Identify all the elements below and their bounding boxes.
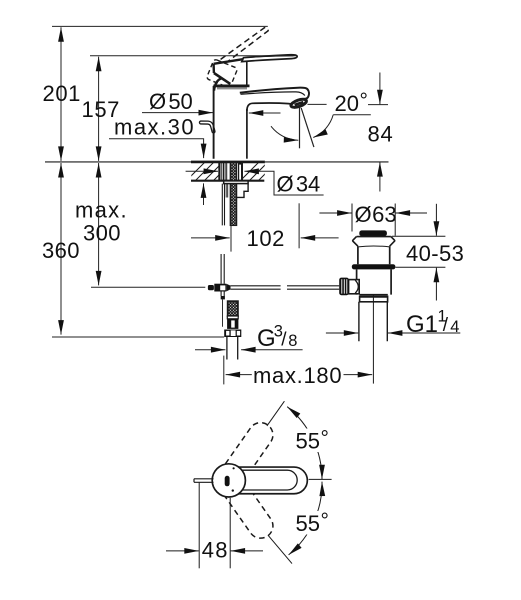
- svg-text:max.: max.: [75, 198, 128, 223]
- lever handle ghost (raised, dashed outline of handle body): [206, 59, 237, 88]
- waste lower body walls: [357, 269, 392, 294]
- label 55 lower halo: [294, 511, 335, 535]
- pull rod vertical (at cross): [221, 254, 224, 296]
- handle skirt arc: [214, 78, 221, 90]
- handle body right edge: [246, 59, 248, 86]
- 20 deg slanted ray: [301, 108, 314, 147]
- countertop hatching left: [186, 161, 233, 181]
- dim line 201 top reference: [52, 25, 268, 27]
- svg-text:/: /: [281, 330, 287, 351]
- waste flange top line: [357, 236, 391, 238]
- waste O-ring: [352, 264, 396, 269]
- svg-text:max.180: max.180: [253, 363, 342, 388]
- label 55 upper halo: [294, 429, 335, 453]
- dim 84 lower arrow: [379, 162, 381, 191]
- 20 deg arc right: [313, 115, 333, 138]
- waste collar: [360, 296, 388, 302]
- lever knurled knob: [339, 278, 349, 296]
- svg-text:300: 300: [83, 221, 121, 246]
- Ø63 right arrow: [396, 212, 427, 214]
- lever housing ball curve: [355, 280, 358, 293]
- tailpipe walls: [359, 302, 387, 342]
- lever handle ghost arm (raised position, dashed): [221, 27, 269, 61]
- horizontal linkage rod left segment: [230, 286, 280, 289]
- lever housing: [349, 280, 360, 294]
- handle body chin diagonal: [214, 73, 230, 84]
- G3/8 left arrow: [195, 349, 225, 351]
- lever blade inner line: [245, 56, 294, 58]
- svg-text:8: 8: [288, 332, 297, 350]
- svg-text:48: 48: [202, 537, 229, 562]
- dim line 157 top reference: [90, 55, 296, 57]
- max.180 extension line: [223, 356, 225, 385]
- waste body bottom edge: [359, 294, 388, 296]
- dim 40-53 lower arrow: [435, 268, 437, 301]
- max.180 left arrow: [226, 374, 252, 376]
- plan dot lower: [232, 489, 234, 491]
- 20 deg label underline: [333, 114, 371, 116]
- handle body left edge: [212, 64, 215, 73]
- 48 right extension line: [229, 498, 231, 569]
- rod coupling block: [214, 284, 226, 292]
- waste flange right side: [390, 237, 395, 247]
- shank stub stripes below nut: [226, 184, 228, 198]
- svg-text:201: 201: [43, 81, 82, 106]
- handle base shoulder shadow: [217, 87, 247, 89]
- max.180 right arrow: [344, 374, 373, 376]
- svg-text:20°: 20°: [335, 90, 368, 117]
- svg-text:/: /: [443, 315, 449, 336]
- dim 360 vertical: [60, 163, 62, 335]
- svg-text:360: 360: [42, 238, 80, 263]
- pull-rod hook knob: [201, 123, 214, 132]
- countertop surface line (thin extension part left): [45, 161, 191, 163]
- shank right wall: [241, 162, 243, 181]
- solid lever blade: [242, 55, 297, 62]
- 84 outlet extension line: [368, 104, 388, 106]
- svg-text:40-53: 40-53: [406, 241, 464, 266]
- spout inner top line: [241, 92, 305, 96]
- G1 1/4 left arrow: [326, 332, 358, 334]
- supply hose lower (cross-hatched): [228, 301, 238, 316]
- plan solid lever outer: [230, 467, 307, 494]
- dim 40-53 upper arrow: [435, 204, 437, 236]
- G3/8 right arrow with underline: [241, 349, 303, 351]
- hose fitting slot: [231, 320, 235, 327]
- svg-text:55°: 55°: [296, 510, 329, 537]
- waste plug cap: [359, 230, 387, 236]
- handle body top edge: [214, 59, 247, 64]
- spout top edge and tip: [240, 88, 309, 99]
- pull rod ghost line: [222, 300, 224, 327]
- dim 84 upper arrow: [379, 73, 381, 105]
- dim 48 right arrow: [231, 550, 263, 552]
- threaded shank left wall: [218, 162, 220, 181]
- handle base shoulder: [213, 85, 249, 88]
- 40-53 upper extension line: [392, 235, 446, 237]
- body column right edge: [246, 109, 248, 159]
- 55 deg upper arc: [287, 407, 322, 480]
- shank top-right dot: [239, 162, 241, 164]
- mounting nut step: [237, 184, 248, 198]
- connection nut: [224, 330, 241, 338]
- Ø63 right extension line: [394, 204, 396, 236]
- aerator inner slot: [295, 102, 304, 105]
- waste flange left side: [353, 237, 358, 247]
- spout underside: [247, 103, 294, 111]
- plan cartridge notch bar: [225, 476, 230, 487]
- svg-text:102: 102: [247, 226, 286, 251]
- Ø50 leader with arrow: [142, 112, 213, 114]
- countertop surface line (thin extension part right): [265, 161, 389, 163]
- dim 48 left arrow: [166, 550, 199, 552]
- plan solid lever inner line: [240, 470, 298, 490]
- 20 deg vertical ray: [299, 107, 301, 148]
- mounting nut bar: [224, 181, 248, 184]
- 102 left extension line: [230, 226, 232, 252]
- 55 deg upper radial line: [267, 401, 285, 426]
- connection nut facets: [226, 331, 229, 336]
- svg-text:max.30: max.30: [114, 115, 195, 140]
- max.300 bottom reference line: [91, 286, 205, 288]
- dim max.300 vertical: [98, 163, 100, 285]
- countertop hatching right: [240, 161, 287, 181]
- svg-text:4: 4: [450, 318, 459, 336]
- dim 157 vertical: [98, 57, 100, 161]
- rod coupling hole: [220, 285, 225, 290]
- dim 201 vertical: [60, 27, 62, 161]
- pull rod below nut: [222, 184, 224, 226]
- waste collar top thick edge: [360, 295, 388, 297]
- svg-text:G1: G1: [406, 311, 438, 338]
- hose fitting dark block: [227, 319, 238, 329]
- waste flange inner line: [358, 245, 389, 248]
- svg-text:55°: 55°: [296, 427, 329, 454]
- countertop bottom line: [191, 180, 264, 182]
- svg-text:Ø34: Ø34: [277, 172, 321, 197]
- horizontal radial line: [309, 478, 332, 480]
- Ø63 left extension line: [351, 204, 353, 232]
- svg-text:Ø63: Ø63: [355, 202, 397, 227]
- rod coupling left piece: [208, 285, 214, 290]
- 360 bottom reference line: [52, 336, 224, 338]
- Ø63 left arrow: [319, 212, 351, 214]
- svg-text:Ø50: Ø50: [149, 89, 193, 114]
- Ø34 right arrow and leader box: [244, 171, 323, 195]
- pull rod end cap: [221, 296, 225, 299]
- 40-53 lower extension line: [396, 266, 446, 268]
- 55 deg lower radial line: [268, 535, 292, 563]
- max.30 leader: [109, 139, 204, 158]
- G1 1/4 right arrow with underline: [388, 332, 460, 334]
- plan lever ghost upper (55 deg, dashed): [220, 418, 278, 486]
- horizontal linkage rod right segment: [287, 286, 339, 289]
- 20 deg arc left: [271, 126, 298, 140]
- body column left edge: [213, 86, 215, 159]
- dim 102 left arrow: [191, 237, 230, 239]
- shank thread stripes: [222, 162, 227, 180]
- plan body circle: [212, 464, 245, 497]
- max.30 lower arrow: [203, 183, 205, 205]
- hose fitting white band: [227, 316, 238, 319]
- aerator outlet: [290, 98, 307, 109]
- countertop surface line (thick drawn part): [191, 161, 265, 164]
- shank inner wall: [238, 162, 240, 180]
- 55 deg lower arc: [289, 482, 322, 555]
- 20 deg leader from aerator: [308, 103, 327, 105]
- plan dot upper: [233, 467, 235, 469]
- 48 left extension line: [198, 483, 200, 569]
- dim 102 right arrow: [301, 237, 339, 239]
- waste center line: [372, 295, 374, 384]
- plan pull-rod knob: [194, 479, 214, 483]
- 102 right extension line: [298, 203, 300, 248]
- svg-text:84: 84: [368, 122, 394, 147]
- plan lever ghost lower (55 deg, dashed): [220, 475, 278, 543]
- Ø50 right arrow: [249, 112, 281, 114]
- supply hose upper (cross-hatched): [230, 162, 236, 225]
- knob grooves: [342, 279, 347, 293]
- Ø34 left arrow: [186, 170, 219, 172]
- G3/8 threaded pipe: [227, 337, 238, 360]
- rod coupling right taper: [226, 284, 230, 292]
- waste upper body walls: [358, 246, 390, 264]
